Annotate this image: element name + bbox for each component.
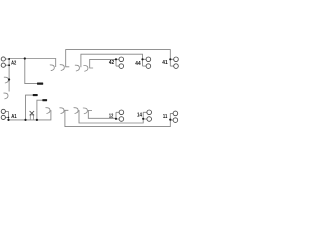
terminal bar 44 [143, 59, 147, 66]
blade pin K1 [37, 82, 43, 84]
wire A2 horizontal + pin down [9, 59, 56, 68]
wire net 44: pin, rail, down to terminal 44 [81, 54, 143, 67]
socket arc 7 [74, 108, 78, 114]
node V2 foot [36, 119, 38, 121]
terminal 44 circles [146, 57, 151, 68]
terminal 14 circles [147, 110, 152, 121]
node left bus arc [8, 78, 10, 80]
svg-text:11: 11 [163, 114, 167, 120]
svg-text:14: 14 [137, 112, 143, 118]
terminal bar A1 stubs [5, 111, 8, 120]
node terminal 11 [169, 119, 171, 121]
terminal bar 11 [170, 113, 173, 120]
socket arc left bus lower [4, 93, 8, 99]
wire left bus A2 down [8, 59, 10, 92]
svg-text:44: 44 [135, 61, 141, 67]
wire V1 to blade2 [26, 95, 33, 120]
wire net 14: pin down, rail, up to terminal 14 [79, 110, 143, 123]
terminal 11 circles [173, 111, 178, 122]
terminal bar A2 stubs [5, 59, 9, 65]
terminal A2 circles [1, 57, 5, 67]
wire V2 to blade3 [37, 100, 42, 120]
socket arc 2 [60, 65, 64, 71]
wire net 12: pin down, rail to terminal 12 [88, 111, 116, 119]
node terminal 41 [169, 58, 171, 60]
terminal 42 circles [119, 57, 124, 68]
terminal bar 14 [143, 112, 147, 119]
wire A1 horizontal + pin up [9, 110, 51, 120]
node terminal 14 [142, 118, 144, 120]
indicator module fork legs [30, 115, 33, 120]
node terminal 44 [141, 58, 143, 60]
wire branch to blade K1 [25, 59, 37, 84]
node terminal 42 [115, 58, 117, 60]
terminal 41 circles [174, 57, 179, 68]
terminal bar 42 [116, 59, 119, 66]
node A2 stub top [8, 58, 10, 60]
junction dots [7, 57, 171, 121]
svg-text:12: 12 [109, 113, 113, 119]
terminal bar 12 [116, 112, 119, 119]
wire net 42: pin, rail to terminal 42 [90, 59, 116, 68]
node A1 stub [8, 117, 10, 119]
wire net 41: pin up, top rail, down to terminal 41 [66, 50, 171, 67]
svg-text:A2: A2 [11, 60, 16, 66]
node terminal 12 [115, 118, 117, 120]
terminal 12 circles [119, 110, 124, 121]
socket arc 1 [50, 65, 54, 71]
socket arc left bus upper [4, 77, 8, 83]
socket arc 8 [83, 108, 87, 114]
socket arc 4 [84, 65, 88, 71]
socket arc 3 [75, 65, 79, 71]
node V1 foot [24, 119, 26, 121]
node A2 branch [24, 57, 26, 59]
blade pin K2 [33, 94, 38, 96]
indicator module X cross [30, 111, 34, 115]
socket arc 6 [60, 108, 64, 114]
svg-text:A1: A1 [11, 114, 17, 120]
wire net 11: stub, pin down, bottom rail, up to terminal 11 [65, 110, 170, 126]
node A2 stub bottom [8, 64, 10, 66]
terminal A1 circles [1, 109, 5, 119]
terminal bar 41 [170, 59, 173, 66]
socket arc 5 [46, 108, 50, 114]
svg-text:42: 42 [109, 60, 114, 66]
node A1 bar bottom [7, 119, 9, 121]
blade pin K3 [42, 99, 47, 101]
svg-text:41: 41 [162, 60, 167, 66]
